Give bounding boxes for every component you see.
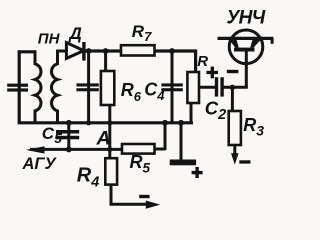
- svg-text:R5: R5: [130, 152, 151, 176]
- junction dot filter cap bottom: [86, 120, 91, 125]
- svg-text:С5: С5: [42, 124, 62, 146]
- capacitor C5: [56, 130, 79, 139]
- transistor УНЧ circle: [229, 30, 263, 64]
- wire R3 bottom lead: [233, 145, 236, 156]
- transistor emitter wedge left: [230, 40, 239, 48]
- wire bottom rail: [18, 121, 193, 124]
- minus arrow (R3 output): [231, 153, 239, 164]
- svg-text:R4: R4: [77, 165, 100, 191]
- capacitor filter (unlabeled): [76, 83, 98, 91]
- svg-text:ПН: ПН: [38, 30, 61, 47]
- wire C2 right lead: [223, 86, 247, 89]
- label + supply: [192, 167, 203, 178]
- resistor R7: [121, 45, 155, 55]
- wire top rail: [84, 51, 196, 73]
- wire R5 right lead: [155, 148, 166, 151]
- wire filter cap vertical: [87, 51, 90, 123]
- inductor L2 (ПН right winding): [52, 50, 58, 123]
- svg-text:С4: С4: [144, 79, 165, 103]
- junction dot node A rail: [107, 120, 112, 125]
- resistor R4: [105, 158, 117, 184]
- plus terminal bar: [170, 160, 196, 166]
- wire C5 vertical: [67, 123, 70, 150]
- wire R5 drop vertical: [164, 123, 167, 150]
- wire plus drop vertical: [180, 123, 183, 160]
- svg-text:R: R: [197, 53, 208, 70]
- diode Д triangle: [66, 43, 83, 59]
- wire C2 left lead: [199, 86, 215, 89]
- resistor R1 box: [187, 72, 199, 103]
- svg-text:А: А: [96, 127, 111, 149]
- svg-text:R7: R7: [132, 22, 152, 44]
- transistor top line hook: [271, 38, 274, 43]
- junction dot C5: [66, 120, 72, 126]
- svg-text:АГУ: АГУ: [22, 155, 58, 173]
- junction dot detector: [86, 48, 92, 54]
- wire R1 bottom lead: [190, 103, 193, 123]
- wire coil to diode: [56, 50, 66, 53]
- diode Д cathode bar: [82, 42, 85, 61]
- label minus R4: [139, 195, 149, 198]
- svg-text:R3: R3: [243, 115, 264, 138]
- label + C2: [206, 67, 218, 79]
- wire C4 vertical: [171, 51, 174, 123]
- wire tank top: [18, 50, 36, 53]
- capacitor C2 plates: [215, 77, 224, 96]
- svg-text:Д: Д: [68, 24, 82, 43]
- junction dot R6 top: [103, 48, 109, 54]
- junction dot plus drop: [178, 120, 184, 126]
- label minus R3: [239, 160, 250, 163]
- wire R3 top lead: [231, 87, 234, 111]
- inductor L1 (ПН left winding): [35, 50, 41, 122]
- junction dot node A AGC: [107, 147, 112, 152]
- svg-text:УНЧ: УНЧ: [227, 8, 266, 29]
- transistor collector wedge right: [250, 40, 260, 48]
- junction dot C5 AGC: [66, 147, 72, 153]
- resistor R5: [122, 144, 155, 154]
- wire R6 top lead: [104, 51, 107, 71]
- capacitor C4: [161, 83, 182, 91]
- wire R4 bottom lead: [111, 185, 148, 205]
- wire R6 bottom lead / node A vertical: [108, 105, 111, 158]
- transistor top line: [218, 37, 274, 40]
- resistor R3: [229, 111, 241, 145]
- junction dot R5 drop: [162, 120, 168, 126]
- svg-text:С2: С2: [205, 98, 226, 124]
- capacitor tank C (left): [7, 84, 28, 92]
- AGC arrowhead: [26, 146, 45, 153]
- minus arrow (R4 output): [146, 201, 161, 209]
- wire base lead: [245, 52, 248, 88]
- transistor base bar: [234, 48, 255, 52]
- AGC line: [30, 148, 122, 151]
- junction dot base C2: [230, 85, 235, 90]
- wire left tank vertical: [18, 50, 21, 122]
- label minus C2: [227, 70, 239, 73]
- resistor R6: [101, 71, 114, 105]
- svg-text:R6: R6: [121, 80, 142, 104]
- junction dot C4 top: [169, 48, 175, 54]
